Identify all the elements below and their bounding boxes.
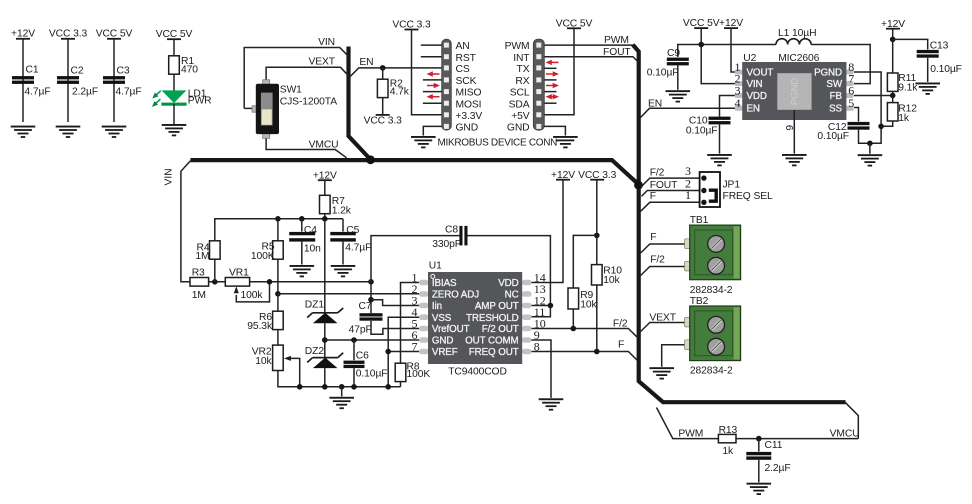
wire EN from bus to CS pin	[351, 68, 442, 76]
node bus junction left	[366, 155, 375, 164]
svg-text:SW: SW	[826, 79, 842, 90]
red arrow SCL-SDA double	[546, 94, 560, 99]
svg-text:F: F	[650, 191, 656, 202]
svg-text:+3.3V: +3.3V	[456, 111, 483, 122]
wire R7 top	[324, 180, 326, 195]
wire C4 to ground	[301, 242, 303, 265]
svg-text:PWM: PWM	[604, 35, 629, 46]
wire F to TB1-1	[641, 244, 687, 253]
svg-text:4.7µF: 4.7µF	[345, 242, 371, 253]
wire VREF pin7	[388, 351, 419, 353]
wire VCC5V to +5V pin	[545, 28, 575, 115]
svg-text:SS: SS	[829, 104, 842, 115]
ground	[649, 367, 674, 379]
svg-text:10k: 10k	[255, 356, 272, 367]
svg-text:VCC 3.3: VCC 3.3	[364, 115, 403, 126]
svg-text:GND: GND	[432, 336, 453, 347]
wire AMP OUT pin12	[532, 305, 551, 307]
ground	[162, 124, 187, 136]
node junction FB	[890, 93, 896, 99]
svg-text:FOUT: FOUT	[603, 47, 631, 58]
svg-text:100K: 100K	[407, 369, 431, 380]
svg-text:282834-2: 282834-2	[690, 366, 733, 377]
resistor R10	[592, 265, 603, 285]
red arrow SCK-MISO right	[427, 83, 440, 88]
wire R12 bottom to PGND node	[881, 121, 893, 126]
wire SS pin to C12	[854, 108, 859, 122]
svg-text:U1: U1	[429, 261, 442, 272]
wire DZ2 to rail	[324, 368, 326, 387]
svg-text:7: 7	[412, 339, 418, 353]
svg-text:SDA: SDA	[509, 99, 530, 110]
resistor R9	[568, 288, 579, 309]
wire R4 vertical	[214, 259, 216, 282]
svg-text:EN: EN	[747, 104, 760, 115]
wire VMCU net	[266, 137, 347, 158]
svg-text:C1: C1	[26, 65, 39, 76]
node junction R9/F2	[571, 326, 577, 332]
svg-text:C11: C11	[765, 440, 783, 451]
svg-text:FREQ SEL: FREQ SEL	[723, 191, 773, 202]
wire U2 pin9 to ground	[793, 110, 795, 154]
svg-text:0.10µF: 0.10µF	[356, 369, 388, 380]
wire TX stub	[545, 67, 557, 69]
svg-text:VR1: VR1	[229, 268, 249, 279]
ground	[11, 126, 36, 138]
wire VR1 right to U1 pin1 area	[250, 281, 371, 283]
wire +12V to VOUT pin	[731, 28, 735, 72]
svg-text:1.2k: 1.2k	[332, 206, 352, 217]
terminal TB1	[641, 215, 741, 296]
wire C9 top / L1 rail	[678, 45, 776, 58]
zener DZ2	[305, 346, 343, 368]
switch SW1 CJS-1200TA	[252, 80, 337, 139]
wire R13 to VMCU	[736, 438, 858, 440]
wire F to JP1 pin1	[641, 202, 704, 211]
capacitor C4	[289, 232, 315, 242]
resistor R12	[887, 103, 898, 121]
node junction VCC5V rail	[698, 42, 704, 48]
red arrow MISO-MOSI left	[427, 94, 440, 99]
wire VIN net	[244, 48, 348, 109]
wire R2 bottom	[382, 97, 384, 115]
wire rail ground stem	[341, 387, 343, 397]
svg-text:FOUT: FOUT	[650, 180, 678, 191]
svg-text:+5V: +5V	[511, 111, 530, 122]
wire bus from SW1 merge down to horizontal bus	[349, 47, 371, 160]
svg-text:1: 1	[685, 188, 691, 202]
svg-text:C3: C3	[117, 65, 130, 76]
wire to C13	[893, 39, 928, 49]
svg-text:VREF: VREF	[432, 347, 458, 358]
red arrow RX-SCL right	[546, 83, 559, 88]
red arrow TX-RX right	[546, 71, 559, 76]
svg-text:VSS: VSS	[432, 313, 452, 324]
wire PWM net to bus	[545, 44, 633, 46]
wire SCL stub	[545, 91, 557, 93]
node junction C11	[756, 436, 762, 442]
wire +12V down to junction	[892, 29, 894, 40]
resistor R1	[169, 56, 180, 74]
wire GND net to U1 pin6	[325, 339, 420, 341]
node bus junction right	[634, 181, 643, 190]
svg-text:9.1k: 9.1k	[898, 83, 918, 94]
wire VCC3.3 down	[596, 180, 598, 265]
ground	[411, 136, 436, 148]
node junction ground stem	[867, 141, 873, 147]
node junction VR1/wiper	[267, 279, 273, 285]
wire rail4	[173, 39, 175, 56]
wire ZERO ADJ to U1 pin2	[278, 293, 420, 295]
wire LED to ground	[173, 104, 175, 124]
wire R11/R12 connect	[892, 96, 894, 103]
wire R6 to VR2	[277, 330, 279, 346]
wire VMCU entry from bus	[845, 402, 858, 438]
svg-text:1k: 1k	[898, 113, 910, 124]
svg-text:L1 10µH: L1 10µH	[778, 28, 816, 39]
switch SW1 area	[244, 37, 348, 158]
node junction C7/C8 drop on VR1 wire	[368, 279, 374, 285]
svg-text:10n: 10n	[304, 244, 321, 255]
node junction C6 top	[351, 337, 357, 343]
ground	[102, 126, 127, 138]
node junction pin12/C8	[548, 303, 554, 309]
wire VEXT net	[266, 67, 348, 81]
svg-text:F/2 OUT: F/2 OUT	[482, 324, 519, 335]
node junction R12/PGND	[878, 124, 884, 130]
node junction VSS/rail	[385, 384, 391, 390]
svg-text:10k: 10k	[580, 299, 597, 310]
node junction R5 top	[275, 216, 281, 222]
resistor R11	[887, 73, 898, 91]
svg-text:AMP OUT: AMP OUT	[475, 301, 519, 312]
svg-text:FREQ OUT: FREQ OUT	[469, 347, 519, 358]
svg-text:C9: C9	[667, 48, 680, 59]
wire VCC5V down to junction	[700, 28, 702, 44]
wire IBIAS pin1 to R8	[401, 283, 420, 363]
terminal block TB2 282834-2	[685, 306, 741, 361]
right header pin labels	[505, 41, 531, 133]
wire FREQ OUT pin8 to bus	[532, 352, 638, 361]
wire ground stem	[869, 143, 871, 154]
svg-text:C7: C7	[359, 301, 372, 312]
wire C5 stem from rail	[342, 219, 344, 232]
wire RX stub	[545, 79, 557, 81]
svg-text:SW1: SW1	[280, 85, 302, 96]
wire R2 top	[382, 68, 384, 80]
resistor R4	[210, 241, 221, 259]
node junction R3/R4	[212, 279, 218, 285]
svg-text:DZ1: DZ1	[305, 299, 325, 310]
svg-text:330pF: 330pF	[432, 239, 461, 250]
terminal block TB1 282834-2	[685, 225, 741, 280]
wire TRESHOLD pin11 jog	[532, 306, 551, 317]
wire C5 to ground	[342, 242, 344, 265]
svg-text:NC: NC	[505, 290, 519, 301]
svg-text:282834-2: 282834-2	[690, 285, 733, 296]
potentiometer VR2	[273, 345, 284, 370]
wire C6 stem	[353, 340, 355, 360]
svg-text:PWM: PWM	[678, 429, 703, 440]
node junction EN/R2	[380, 65, 386, 71]
svg-text:0.10µF: 0.10µF	[686, 126, 718, 137]
node junction R10/F	[594, 349, 600, 355]
capacitor C8	[371, 225, 550, 306]
resistor R5	[273, 241, 284, 259]
potentiometer VR1	[225, 278, 249, 287]
wire C11 stem	[758, 439, 760, 452]
capacitor C7	[349, 282, 420, 336]
zener DZ1	[305, 299, 343, 323]
wire C13 to ground	[927, 58, 929, 82]
wire F/2 to TB1-2	[641, 267, 687, 276]
svg-text:47pF: 47pF	[349, 324, 372, 335]
connector left header P1	[442, 39, 452, 130]
bottom PWM / VMCU RC filter	[657, 402, 860, 495]
svg-text:TRESHOLD: TRESHOLD	[466, 313, 519, 324]
wire F/2 OUT pin10 to bus	[532, 329, 638, 338]
svg-text:VMCU: VMCU	[309, 140, 339, 151]
svg-text:C2: C2	[71, 65, 84, 76]
wire VEXT to TB2-1	[641, 323, 687, 332]
svg-text:4.7µF: 4.7µF	[116, 87, 142, 98]
wire VIN drop	[701, 45, 735, 84]
wire C6 to rail	[353, 368, 355, 387]
svg-text:MIKROBUS DEVICE CONN: MIKROBUS DEVICE CONN	[438, 138, 558, 149]
svg-text:AN: AN	[456, 41, 470, 52]
U1 right-side wiring	[371, 170, 637, 411]
resistor R3	[190, 278, 209, 287]
wire VDD pin to C10	[720, 96, 736, 117]
wire GND left header to ground	[423, 126, 441, 135]
svg-text:SCL: SCL	[510, 88, 530, 99]
wire +12V to VDD pin14	[532, 180, 564, 283]
svg-text:IBIAS: IBIAS	[432, 278, 457, 289]
node VCC 3.3 flag under R2	[376, 114, 390, 116]
wire SCK stub	[423, 79, 442, 81]
svg-text:100K: 100K	[251, 251, 275, 262]
wire switch left pin to VIN	[244, 107, 256, 109]
capacitor C12	[848, 122, 870, 130]
ground	[666, 90, 691, 102]
svg-text:RST: RST	[456, 53, 477, 64]
svg-text:1M: 1M	[195, 251, 209, 262]
svg-text:1k: 1k	[722, 446, 734, 457]
wire R11 bottom to FB node	[892, 91, 894, 95]
wire SDA stub	[545, 102, 557, 104]
resistor R2	[377, 79, 388, 97]
svg-text:2.2µF: 2.2µF	[72, 87, 98, 98]
wire VR2 bottom to rail	[278, 371, 401, 387]
svg-text:PGND: PGND	[814, 68, 842, 79]
wire PGND pin to ground	[854, 72, 881, 126]
wire R8 bottom to rail	[400, 382, 402, 387]
ground	[782, 154, 807, 166]
svg-text:VEXT: VEXT	[309, 57, 336, 68]
svg-text:VDD: VDD	[498, 278, 518, 289]
power rail group top-left	[11, 29, 212, 138]
svg-text:VIN: VIN	[164, 169, 175, 186]
svg-text:VDD: VDD	[747, 91, 767, 102]
svg-text:JP1: JP1	[723, 180, 741, 191]
wire rail2	[67, 39, 69, 122]
LED LD1 PWR green	[150, 88, 211, 108]
node junction wiper/rail	[297, 384, 303, 390]
wire rail1	[22, 39, 24, 122]
svg-text:10k: 10k	[603, 275, 620, 286]
jumper JP1 FREQ SEL	[685, 164, 773, 207]
svg-text:RX: RX	[515, 76, 529, 87]
wire R7 bottom to rail	[324, 214, 326, 219]
wire DZ1 to DZ2	[324, 323, 326, 357]
svg-text:CS: CS	[456, 64, 470, 75]
svg-text:FB: FB	[830, 91, 843, 102]
wire R4 to rail	[215, 219, 278, 241]
connector right header P2	[533, 39, 544, 130]
ground	[915, 83, 940, 95]
capacitor C13	[917, 50, 939, 58]
wire jog to R9	[573, 235, 597, 288]
svg-text:VOUT: VOUT	[747, 68, 774, 79]
svg-text:95.3k: 95.3k	[247, 321, 273, 332]
capacitor C5	[330, 232, 356, 242]
wire AN stub	[421, 44, 442, 46]
wire VIN drop from bus	[181, 161, 191, 282]
svg-text:TC9400COD: TC9400COD	[448, 367, 507, 378]
svg-text:Iin: Iin	[432, 301, 442, 312]
red arrow INT-TX left	[546, 60, 559, 65]
capacitor C10	[709, 117, 731, 125]
svg-text:VEXT: VEXT	[649, 312, 676, 323]
wire R5 bottom to R6 junction	[277, 259, 279, 294]
svg-text:GND: GND	[456, 123, 479, 134]
node junction C7/Iin jog	[368, 297, 374, 303]
wire C12 bottom to ground node	[859, 126, 882, 143]
ground	[858, 154, 883, 166]
resistor R7	[320, 195, 331, 213]
ground	[331, 265, 356, 277]
wire C7 bottom jog to pin5	[371, 321, 420, 335]
svg-text:ZERO ADJ: ZERO ADJ	[432, 290, 479, 301]
wire Iin jog to pin3	[371, 300, 420, 306]
svg-text:SCK: SCK	[456, 76, 477, 87]
wire C4 stem	[301, 219, 303, 232]
svg-text:0.10µF: 0.10µF	[817, 131, 849, 142]
wire C11 to ground	[758, 460, 760, 483]
left header pin labels	[456, 41, 483, 133]
inductor L1	[776, 39, 811, 45]
capacitor C2	[57, 76, 79, 84]
EN net (switch side)	[351, 57, 442, 127]
node junction R7/rail	[322, 216, 328, 222]
svg-text:0.10µF: 0.10µF	[930, 64, 962, 75]
svg-text:0.10µF: 0.10µF	[647, 67, 679, 78]
capacitor C6	[344, 361, 365, 368]
svg-text:F/2: F/2	[613, 318, 628, 329]
ground	[290, 265, 315, 277]
wire VCC3.3 to +3.3V pin	[412, 30, 442, 115]
svg-text:R13: R13	[719, 425, 738, 436]
wiper VR1	[236, 282, 269, 302]
capacitor C1	[12, 76, 34, 84]
node junction C6/rail	[351, 384, 357, 390]
node junction C4/rail	[299, 216, 305, 222]
svg-text:INT: INT	[513, 53, 530, 64]
U2 regulator section	[641, 18, 962, 166]
wire R3 right to junction	[209, 281, 226, 283]
node junction +12V/C13	[890, 37, 896, 43]
ground	[329, 397, 354, 409]
wiper VR2	[291, 358, 300, 386]
wire rail3	[113, 39, 115, 122]
ground	[56, 126, 81, 138]
wire C9 to ground	[677, 66, 679, 90]
mikrobus headers	[392, 18, 638, 148]
svg-text:C4: C4	[304, 225, 317, 236]
svg-text:VMCU: VMCU	[830, 429, 860, 440]
ground	[539, 398, 564, 410]
svg-text:EN: EN	[648, 99, 662, 110]
svg-text:GND: GND	[507, 123, 530, 134]
wire bus horizontal VIN rail	[190, 160, 638, 184]
node junction DZ2/rail	[322, 384, 328, 390]
svg-text:100k: 100k	[241, 290, 264, 301]
capacitor C11	[746, 452, 771, 460]
wire R10 bottom to F wire	[596, 285, 598, 352]
svg-text:DZ2: DZ2	[305, 346, 325, 357]
wire R6 top	[277, 294, 279, 311]
wire OUT COMM pin9 to ground	[532, 340, 552, 398]
terminal TB2	[641, 296, 741, 379]
wire R9 bottom to F/2 wire	[572, 309, 574, 329]
wire C8 right leg to pin12	[468, 236, 551, 306]
svg-text:F/2: F/2	[650, 255, 665, 266]
svg-text:PWM: PWM	[505, 41, 530, 52]
svg-text:PGND: PGND	[790, 78, 801, 106]
svg-text:F: F	[618, 340, 624, 351]
svg-text:5: 5	[848, 96, 854, 110]
svg-text:4: 4	[735, 96, 741, 110]
svg-text:VIN: VIN	[747, 79, 763, 90]
svg-text:4.7k: 4.7k	[390, 87, 410, 98]
svg-text:R3: R3	[192, 268, 205, 279]
wire R1 to LED	[173, 74, 175, 91]
svg-text:PWR: PWR	[188, 96, 212, 107]
wire RST stub	[421, 56, 442, 58]
resistor R6	[273, 311, 284, 329]
wire C8 left leg	[371, 236, 459, 282]
red arrow CS-SCK left	[427, 71, 440, 76]
resistor R8	[395, 363, 406, 381]
wire F/2 to JP1 pin3	[641, 178, 704, 187]
wire EN net bus to pin 4	[641, 108, 736, 117]
wire VSS pin4 drop	[388, 317, 419, 387]
wire MISO stub	[423, 91, 442, 93]
svg-text:CJS-1200TA: CJS-1200TA	[280, 96, 337, 107]
node junction rail ground	[339, 384, 345, 390]
svg-text:EN: EN	[359, 57, 373, 68]
IC U1 TC9400COD	[412, 261, 546, 378]
resistor R13	[718, 434, 736, 442]
node junction VSS/VREF	[385, 349, 391, 355]
svg-text:2.2µF: 2.2µF	[765, 463, 791, 474]
wire +12V to R11	[892, 39, 894, 73]
node junction R9/R10 top	[594, 233, 600, 239]
svg-text:MISO: MISO	[456, 88, 482, 99]
svg-text:MOSI: MOSI	[456, 99, 482, 110]
capacitor C3	[103, 76, 125, 84]
wire DZ chain from rail	[324, 219, 326, 313]
